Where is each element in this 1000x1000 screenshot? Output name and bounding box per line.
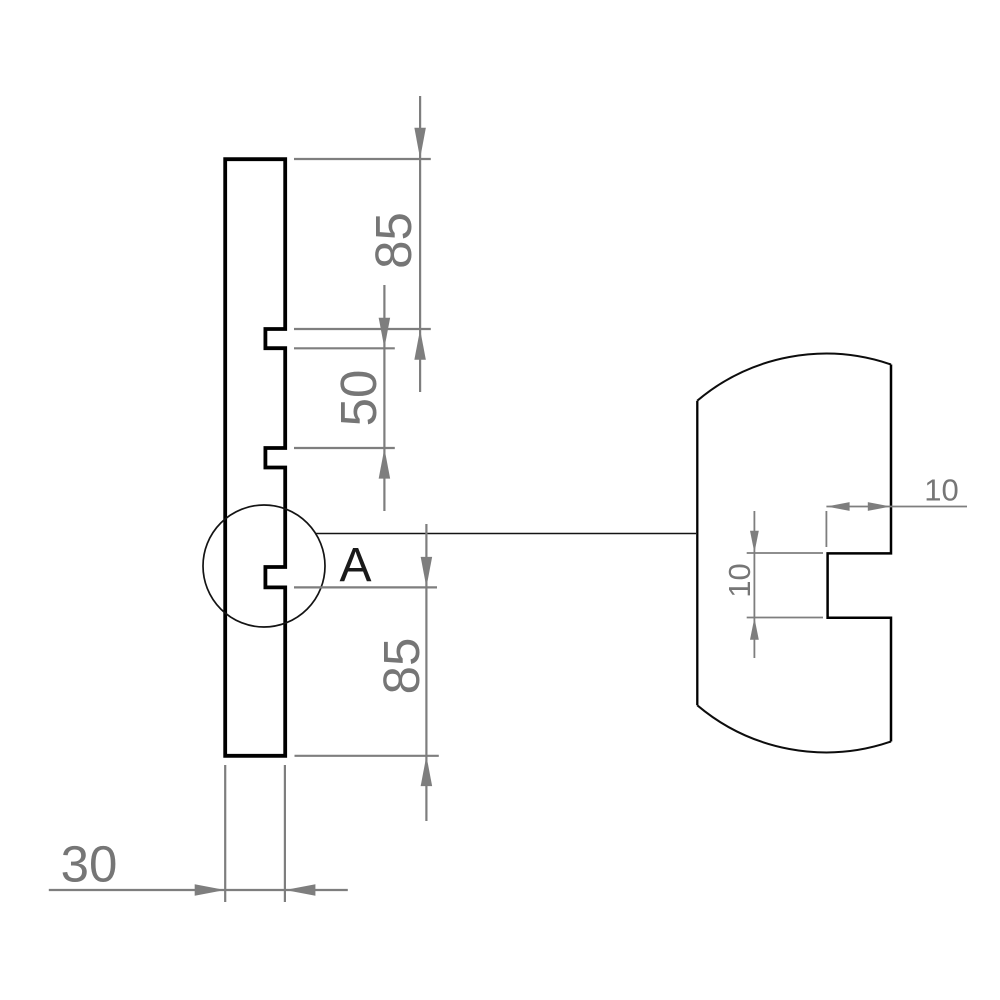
extension line notch2 top xyxy=(294,447,395,449)
plate outline (main view part edge) xyxy=(225,159,285,756)
arrow down at notch3 bottom xyxy=(421,557,433,587)
detail ext line notch top xyxy=(747,552,823,554)
arrow up at plate bottom xyxy=(421,756,433,786)
detail view right edge and notch xyxy=(828,365,891,742)
detail circle A xyxy=(203,505,325,627)
detail view left edge xyxy=(696,401,698,706)
svg-text:A: A xyxy=(339,539,371,592)
svg-text:30: 30 xyxy=(61,836,118,893)
extension line notch1 top xyxy=(294,328,431,330)
extension line plate bottom xyxy=(295,755,439,757)
arrow up at notch2 top xyxy=(379,448,391,478)
arrow up at notch1 top xyxy=(414,330,426,360)
detail arrow right xyxy=(868,502,891,511)
dimension line 30 xyxy=(49,889,348,891)
arrow down at plate top xyxy=(414,128,426,159)
arrow right at left ext xyxy=(195,884,225,896)
detail arrow up xyxy=(750,618,759,640)
svg-text:50: 50 xyxy=(330,370,387,427)
svg-text:10: 10 xyxy=(924,473,958,508)
extension line notch1 bottom xyxy=(294,347,395,349)
extension line plate top xyxy=(294,158,431,160)
arrow left at right ext xyxy=(285,884,315,896)
dimension line 50 xyxy=(383,285,385,511)
svg-text:10: 10 xyxy=(722,563,757,597)
extension line notch3 bottom xyxy=(294,586,437,588)
svg-text:85: 85 xyxy=(365,212,422,269)
detail ext line notch bottom xyxy=(747,617,823,619)
detail view bottom break arc xyxy=(697,705,891,752)
dimension line 85 top xyxy=(419,96,421,392)
dimension line 85 bottom xyxy=(425,524,427,821)
detail view top break arc xyxy=(697,354,891,401)
extension line bottom-left (30 dim) xyxy=(224,765,226,902)
leader line from detail circle to detail view xyxy=(316,533,696,535)
detail dimension line 10 vertical xyxy=(753,511,755,658)
detail arrow down xyxy=(750,531,759,553)
extension line bottom-right (30 dim) xyxy=(284,765,286,902)
arrow down at notch1 bottom xyxy=(379,318,391,348)
svg-text:85: 85 xyxy=(373,638,430,695)
detail arrow left xyxy=(827,502,850,511)
detail dimension line 10 horizontal xyxy=(826,506,967,508)
detail ext line notch corner vertical xyxy=(825,511,827,547)
